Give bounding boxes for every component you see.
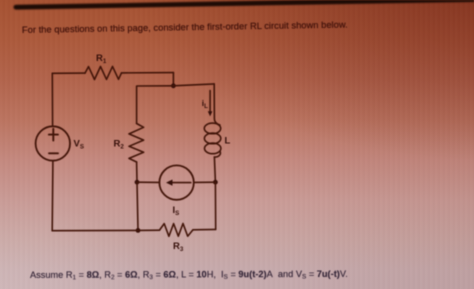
wire right branch vertical — [214, 182, 216, 229]
inductor L — [204, 84, 221, 157]
wire node A to inductor branch — [173, 84, 214, 86]
header instruction text — [22, 19, 348, 34]
current source Is — [159, 165, 193, 199]
label iL — [202, 98, 208, 110]
svg-text:R2: R2 — [114, 139, 125, 151]
node C junction dot — [136, 228, 141, 233]
wire bottom right — [193, 228, 216, 230]
resistor R2 — [129, 124, 144, 163]
label Vs — [74, 139, 84, 151]
wire corner down to node A — [172, 73, 174, 86]
label R2 — [114, 139, 125, 151]
svg-text:L: L — [225, 136, 231, 147]
node B junction dot — [135, 180, 140, 185]
label R1 — [96, 53, 107, 65]
wire current source to node D — [194, 181, 216, 183]
label R3 — [173, 241, 184, 253]
wire R2 to node B — [136, 162, 138, 182]
voltage source Vs — [36, 126, 70, 160]
node A junction dot — [171, 83, 176, 88]
svg-text:VS: VS — [74, 139, 84, 151]
wire left vertical bottom — [51, 161, 54, 231]
wire node B down to node C — [137, 182, 138, 230]
wire inductor to node D — [214, 157, 215, 182]
label Is — [173, 205, 180, 217]
current arrow iL — [208, 91, 213, 117]
wire top right horizontal — [122, 72, 174, 74]
svg-text:IS: IS — [173, 205, 180, 217]
wire bottom left — [52, 229, 159, 232]
label L — [225, 136, 231, 147]
wire node B to current source — [137, 181, 159, 183]
svg-text:iL: iL — [202, 98, 208, 110]
resistor R3 — [160, 224, 194, 237]
wire left vertical top — [51, 73, 53, 126]
svg-text:R3: R3 — [173, 241, 184, 253]
wire top left horizontal — [52, 72, 85, 74]
node D junction dot — [213, 180, 218, 185]
bottom assumptions text — [30, 268, 348, 279]
svg-text:R1: R1 — [96, 53, 107, 65]
wire node A to R2 branch — [137, 86, 174, 124]
resistor R1 — [85, 66, 122, 79]
